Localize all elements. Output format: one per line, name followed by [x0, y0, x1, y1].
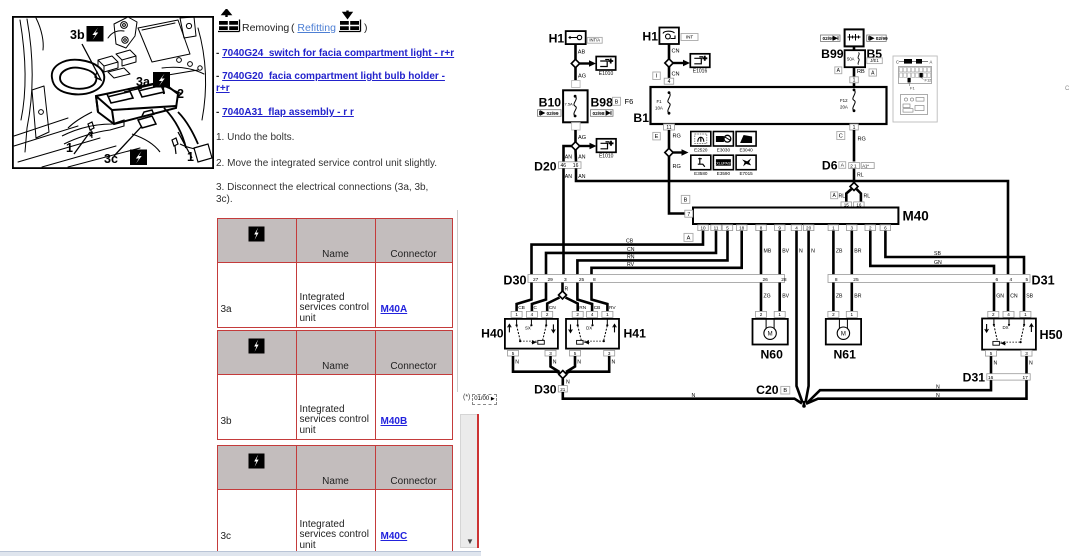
utilizer icon E3580	[691, 155, 711, 170]
wire SB D31-5 to H50 pin 1	[1023, 283, 1026, 312]
svg-text:H1: H1	[549, 32, 565, 46]
svg-text:E3030: E3030	[717, 147, 731, 152]
svg-text:GN: GN	[996, 294, 1004, 300]
ground icon E1016	[690, 54, 710, 68]
svg-text:E2520: E2520	[694, 147, 708, 152]
wire N H50-3 to D31-17	[1025, 356, 1028, 374]
wire RV D30-8 to H41 pin 1	[592, 283, 608, 312]
svg-text:50A: 50A	[847, 57, 855, 62]
wire CN from H1	[668, 44, 671, 59]
wire ZB M40-1 to D31-8	[832, 231, 835, 275]
svg-text:BR: BR	[854, 294, 861, 300]
pin 6 of M40 (bottom)	[880, 225, 891, 231]
fork junction N below switches	[559, 371, 567, 379]
svg-text:H50: H50	[1040, 328, 1063, 342]
pin 3 of H40 (bottom)	[545, 350, 556, 356]
svg-text:2: 2	[992, 312, 995, 317]
svg-text:ZB: ZB	[836, 249, 843, 255]
svg-text:5: 5	[726, 225, 729, 230]
svg-text:3: 3	[1025, 351, 1028, 356]
svg-text:N: N	[692, 393, 696, 399]
connector D6 pins 2 1	[849, 163, 860, 169]
arrow to utilizer icons	[673, 151, 683, 153]
svg-text:J/E1: J/E1	[870, 58, 879, 63]
svg-text:4: 4	[591, 312, 594, 317]
svg-text:AG: AG	[578, 74, 586, 80]
svg-text:AN: AN	[565, 155, 572, 161]
svg-text:C: C	[1065, 86, 1070, 92]
svg-text:27: 27	[533, 277, 539, 283]
svg-text:N: N	[577, 360, 581, 366]
splice junction RG	[665, 148, 673, 156]
fuse F12 inside B1	[853, 89, 856, 92]
pin 3 of H50 (bottom)	[1021, 350, 1032, 356]
pin 10 of M40 (bottom)	[698, 225, 709, 231]
wire N M40-4 to earth point	[797, 231, 803, 403]
svg-text:D30: D30	[534, 383, 557, 397]
svg-text:D31: D31	[963, 371, 986, 385]
svg-text:5: 5	[990, 351, 993, 356]
svg-text:28: 28	[781, 277, 787, 283]
svg-text:E1010: E1010	[599, 71, 614, 77]
svg-text:N61: N61	[834, 348, 857, 362]
svg-text:N: N	[612, 360, 616, 366]
svg-text:RB: RB	[857, 69, 865, 75]
arrow to ground E1010 (top)	[580, 62, 591, 64]
svg-text:CN: CN	[627, 247, 635, 253]
svg-text:CN: CN	[549, 305, 556, 311]
wire R from D30-3	[561, 283, 564, 292]
svg-text:C: C	[896, 60, 899, 65]
svg-text:N: N	[566, 380, 570, 386]
pin 1 of N60	[774, 311, 785, 317]
svg-text:RG: RG	[673, 134, 681, 140]
svg-text:9: 9	[778, 225, 781, 230]
connector D31 lower row	[987, 374, 1030, 380]
svg-text:11: 11	[714, 225, 719, 230]
svg-text:F12: F12	[925, 78, 933, 83]
svg-text:3c: 3c	[104, 152, 118, 166]
pin 4 of H41	[587, 311, 598, 317]
svg-text:4: 4	[1010, 277, 1013, 283]
svg-text:CN: CN	[1010, 294, 1018, 300]
label [B] at M40 pin 7	[681, 195, 690, 203]
svg-text:25: 25	[853, 277, 859, 283]
long wire from D20-16 across top to D31 pin 4	[576, 168, 1008, 274]
svg-text:D6: D6	[822, 159, 838, 173]
svg-text:RL: RL	[864, 194, 871, 200]
wire CB D30-25 to H41 pin 4	[577, 283, 592, 312]
wire N M40-20 to earth point	[806, 231, 809, 403]
svg-text:20A: 20A	[840, 105, 848, 110]
svg-text:02/98: 02/98	[593, 111, 605, 117]
fork junction RL	[850, 183, 858, 191]
pin 11 of B1	[664, 124, 675, 130]
pin 18 of M40 (bottom)	[737, 225, 748, 231]
pin 2 of H50	[988, 311, 999, 317]
pin 1 of N61	[846, 311, 857, 317]
svg-text:3: 3	[549, 351, 552, 356]
svg-text:1: 1	[606, 312, 609, 317]
svg-text:2: 2	[832, 312, 835, 317]
label J/E1	[867, 58, 883, 64]
ground icon E1010 (top)	[596, 57, 616, 71]
svg-text:10: 10	[700, 225, 706, 230]
svg-text:4: 4	[531, 312, 534, 317]
svg-text:SX: SX	[525, 325, 531, 330]
wire N H40-5 to fork	[513, 356, 561, 374]
svg-text:7.5A: 7.5A	[565, 101, 574, 106]
sheet ref 02/99 (right of battery)	[867, 35, 887, 41]
svg-text:8: 8	[760, 225, 763, 230]
svg-text:N: N	[994, 361, 998, 367]
svg-text:7: 7	[687, 212, 690, 218]
svg-text:AN: AN	[578, 174, 585, 180]
sheet ref 02/98 (right of B10)	[591, 110, 614, 117]
wire battery to fuse B5	[853, 46, 856, 50]
svg-text:CB: CB	[518, 305, 525, 311]
earth point node	[803, 401, 806, 406]
svg-text:RL: RL	[839, 194, 846, 200]
svg-text:E1010: E1010	[599, 154, 614, 160]
svg-text:C: C	[839, 134, 843, 140]
svg-text:E3580: E3580	[694, 171, 708, 176]
wire N D31-16 to earth point	[807, 380, 991, 403]
pin 2 of H40	[542, 311, 553, 317]
svg-text:CN: CN	[672, 49, 680, 55]
wire N from D30-21 to earth point	[563, 392, 802, 404]
pin 5 of M40 (bottom)	[722, 225, 733, 231]
label INT	[681, 34, 698, 41]
sheet ref 02/99 (left of B10)	[538, 110, 562, 117]
svg-text:3: 3	[564, 277, 567, 283]
pin 4 of B1	[664, 78, 674, 84]
svg-text:RG: RG	[673, 164, 681, 170]
connector D20 row	[559, 162, 582, 169]
wire AN to D20 pin 16	[574, 150, 577, 162]
svg-text:10A: 10A	[655, 106, 663, 111]
pin 1 of H40	[511, 311, 522, 317]
svg-text:N: N	[936, 385, 940, 391]
connector table 3c	[217, 445, 453, 555]
svg-text:2: 2	[546, 312, 549, 317]
pin 20 of M40 (bottom)	[803, 225, 814, 231]
svg-text:2: 2	[576, 312, 579, 317]
pin 15 of M40	[841, 202, 852, 208]
left technical illustration	[12, 16, 214, 169]
svg-text:B: B	[783, 388, 787, 394]
svg-text:21: 21	[560, 387, 566, 392]
svg-text:SB: SB	[1026, 294, 1033, 300]
svg-text:1: 1	[515, 312, 518, 317]
fuse F1 inside B1	[668, 91, 671, 94]
svg-text:F6: F6	[625, 97, 634, 106]
wire CB D30-27 to H40 pin 1	[517, 283, 532, 312]
pin 1 of H41	[602, 311, 613, 317]
svg-text:N: N	[936, 393, 940, 399]
svg-text:RL: RL	[857, 173, 864, 179]
wire BR M40-3 to D31-25	[850, 231, 853, 275]
wire MB M40-8 to D30-26	[760, 231, 763, 275]
svg-text:E3040: E3040	[739, 147, 753, 152]
svg-text:46: 46	[561, 163, 567, 169]
connector D30 row	[528, 275, 785, 283]
svg-text:8: 8	[835, 277, 838, 283]
window motor N61	[826, 319, 861, 345]
wire N H40-3 to fork	[551, 356, 560, 372]
wire AG junction to B10	[574, 68, 577, 82]
svg-text:3: 3	[851, 225, 854, 230]
pin 16 of M40	[854, 202, 865, 208]
wire AB from H1	[574, 44, 577, 59]
svg-text:E: E	[655, 134, 659, 140]
svg-text:AN: AN	[578, 155, 585, 161]
junction unit B1 box	[651, 87, 887, 124]
svg-text:1: 1	[853, 125, 856, 131]
pin 11 of M40 (bottom)	[711, 225, 722, 231]
svg-text:02/99: 02/99	[547, 111, 559, 117]
svg-text:AB: AB	[578, 50, 586, 56]
wire AN from D20-46 down to D30 pin 3	[562, 168, 565, 274]
svg-text:A: A	[930, 60, 933, 65]
wire RL D6 down	[853, 169, 856, 183]
pin 2 of N60	[756, 311, 767, 317]
wire RN M40-5 to D30-25	[577, 231, 727, 275]
svg-text:N: N	[1029, 361, 1033, 367]
fuse element 7.5A inside B10	[574, 95, 577, 98]
svg-text:RN: RN	[627, 255, 635, 261]
legend fusebox grid	[899, 67, 932, 84]
splice junction below B10	[571, 142, 579, 150]
svg-text:AG: AG	[578, 135, 586, 141]
svg-text:INT: INT	[686, 35, 694, 40]
removing/refitting header icons	[218, 9, 378, 35]
label INT/A	[587, 37, 602, 43]
svg-text:E3590: E3590	[717, 171, 731, 176]
svg-text:H41: H41	[624, 327, 647, 341]
pin 1 of B1 (bottom)	[850, 124, 859, 130]
wire N fork to D30-21	[561, 379, 564, 386]
svg-text:DX: DX	[1003, 325, 1009, 330]
pin 5 of H40 (bottom)	[508, 350, 519, 356]
wire N H41-5 to fork	[566, 356, 575, 372]
svg-text:SB: SB	[934, 251, 941, 257]
utilizer icon E2520	[691, 132, 711, 147]
wire N D31-17 to earth point	[806, 380, 1027, 404]
svg-text:B1: B1	[633, 111, 649, 125]
connector D31 row	[828, 275, 1030, 283]
pin 2 of H41	[572, 311, 583, 317]
svg-text:M40: M40	[903, 209, 929, 224]
pin 8 of M40 (bottom)	[756, 225, 767, 231]
wire CB M40-10 to D30-27	[532, 231, 704, 275]
battery B99 box	[845, 29, 864, 46]
label [A] at D6	[839, 162, 846, 169]
svg-text:2: 2	[869, 225, 872, 230]
pin 1 of B1 (top)	[850, 77, 859, 83]
svg-text:C: C	[534, 305, 538, 311]
pin 9 of M40 (bottom)	[775, 225, 786, 231]
svg-text:GN: GN	[934, 260, 942, 266]
svg-text:5: 5	[1026, 277, 1029, 283]
wire GN M40-2 to D31-6	[870, 231, 994, 275]
svg-text:A: A	[687, 236, 691, 242]
svg-text:8: 8	[593, 277, 596, 283]
middle column scroll bar	[457, 210, 458, 392]
window switch H50	[982, 319, 1036, 350]
wire GN D31-6 to H50 pin 2	[993, 283, 996, 312]
svg-text:25: 25	[579, 277, 585, 283]
wire RG from B1 pin 11	[668, 130, 671, 149]
svg-text:RV: RV	[609, 305, 616, 311]
svg-text:B98: B98	[591, 96, 614, 110]
pin 2 of N61	[828, 311, 839, 317]
svg-text:N: N	[515, 360, 519, 366]
pin 5 of H41 (bottom)	[570, 350, 581, 356]
svg-text:ZB: ZB	[836, 294, 843, 300]
svg-text:RG: RG	[858, 137, 866, 143]
wire RG down to M40 pin 7	[669, 157, 685, 214]
svg-text:RV: RV	[627, 262, 635, 268]
svg-text:M: M	[841, 331, 846, 337]
svg-text:1: 1	[187, 150, 194, 164]
svg-text:B: B	[684, 198, 688, 204]
svg-text:5: 5	[574, 351, 577, 356]
svg-text:16: 16	[573, 163, 579, 169]
svg-text:BV: BV	[782, 294, 789, 300]
label [I]	[653, 72, 661, 80]
label [B] at C20	[781, 386, 790, 394]
svg-text:6: 6	[996, 277, 999, 283]
svg-text:INT/A: INT/A	[589, 37, 600, 42]
svg-text:DX: DX	[586, 325, 592, 330]
pin 7 of M40	[685, 210, 693, 217]
svg-text:D30: D30	[503, 274, 526, 288]
integrated services control unit M40	[693, 208, 898, 225]
label [C]	[837, 132, 845, 140]
svg-text:5: 5	[512, 351, 515, 356]
pin 4 of M40 (bottom)	[791, 225, 802, 231]
wire BV D30-28 to N60 pin 1	[778, 283, 781, 312]
pin 1 of M40 (bottom)	[828, 225, 839, 231]
svg-text:XXLUPASS: XXLUPASS	[714, 162, 733, 166]
sheet ref 02/99 (left of battery)	[821, 35, 841, 41]
svg-text:N: N	[799, 249, 803, 255]
label [E]	[653, 132, 661, 140]
svg-text:4: 4	[795, 225, 798, 230]
svg-text:02/99: 02/99	[876, 36, 888, 42]
pin 3 of H41 (bottom)	[604, 350, 615, 356]
svg-text:29: 29	[548, 277, 554, 283]
svg-text:CB: CB	[594, 305, 601, 311]
pin 4 of H40	[526, 311, 537, 317]
window switch H40	[505, 319, 558, 349]
connector table 3a	[217, 218, 453, 328]
wire RV M40-18 to D30-8	[592, 231, 742, 275]
svg-text:3b: 3b	[70, 28, 85, 42]
svg-text:N: N	[811, 249, 815, 255]
svg-text:E7015: E7015	[739, 171, 753, 176]
ground icon E1010 (mid)	[597, 139, 617, 153]
svg-text:ZG: ZG	[764, 294, 771, 300]
svg-text:CB: CB	[626, 239, 634, 245]
wire RB fuse B5 to B1 pin 1	[853, 67, 856, 87]
utilizer icon E3040	[736, 132, 756, 147]
svg-text:1: 1	[853, 78, 856, 84]
removing icon (arrow up + pallet)	[218, 10, 240, 32]
svg-text:18: 18	[739, 225, 745, 230]
pin 5 of H50 (bottom)	[986, 350, 997, 356]
svg-text:B: B	[615, 100, 619, 106]
svg-text:N60: N60	[761, 348, 784, 362]
svg-text:26: 26	[763, 277, 769, 283]
svg-text:B10: B10	[539, 96, 562, 110]
splice junction below right H1	[665, 59, 673, 67]
wire CN junction to B1 pin 4	[668, 67, 671, 79]
svg-text:1: 1	[66, 141, 73, 155]
arrow to ground E1016	[673, 62, 684, 64]
wire CN fork to H40 pin 2	[547, 298, 559, 312]
svg-text:1: 1	[832, 225, 835, 230]
svg-text:F1: F1	[910, 86, 915, 91]
window switch H41	[566, 319, 619, 349]
svg-text:1: 1	[851, 312, 854, 317]
utilizer icon E7015	[736, 155, 756, 170]
wire BR D31-25 to N61 pin 1	[850, 283, 853, 312]
wire ZG D30-26 to N60 pin 2	[760, 283, 763, 312]
wire AG below B10	[574, 130, 577, 143]
fork junction R	[559, 291, 567, 299]
switch H1 symbol box (left)	[566, 31, 586, 44]
wire C D30-29 to H40 pin 4	[532, 283, 546, 312]
pin 2 of M40 (bottom)	[865, 225, 876, 231]
svg-text:3a: 3a	[136, 75, 151, 89]
svg-text:3: 3	[608, 351, 611, 356]
svg-text:CN: CN	[672, 72, 680, 78]
svg-text:C20: C20	[756, 383, 779, 397]
pin 3 of M40 (bottom)	[847, 225, 858, 231]
svg-text:BV: BV	[782, 249, 789, 255]
svg-text:2: 2	[760, 312, 763, 317]
refitting icon (arrow down + pallet)	[339, 11, 361, 32]
arrow to ground E1010 (mid)	[580, 145, 591, 147]
svg-text:H1: H1	[642, 30, 658, 44]
svg-text:2 1: 2 1	[850, 164, 857, 169]
wire CN D31-4 to H50 pin 4	[1007, 283, 1010, 312]
switch H1 symbol box (right)	[659, 28, 679, 45]
wire N H50-5 to D31-16	[990, 356, 993, 374]
svg-text:D31: D31	[1032, 274, 1055, 288]
connector stub below fuse B10	[572, 123, 581, 130]
svg-text:R: R	[565, 287, 569, 293]
svg-text:F1: F1	[657, 99, 663, 104]
window motor N60	[753, 319, 788, 345]
svg-text:1: 1	[1024, 312, 1027, 317]
svg-text:A1*: A1*	[862, 164, 869, 169]
pin 21 of D30	[558, 386, 567, 392]
fuse B10 box	[563, 90, 588, 122]
wire RL to M40 pin 16	[857, 189, 861, 202]
wire AN to D20 pin 46	[564, 146, 572, 162]
utilizer icon E3590	[713, 155, 733, 170]
svg-text:MB: MB	[764, 249, 772, 255]
svg-text:N: N	[553, 360, 557, 366]
wire RG B1 to D6	[853, 130, 856, 162]
label [A] (left of RB)	[835, 67, 842, 74]
label [A] (right of RB)	[869, 69, 877, 76]
svg-text:2: 2	[177, 87, 184, 101]
wire N H41-3 to fork	[566, 356, 610, 374]
